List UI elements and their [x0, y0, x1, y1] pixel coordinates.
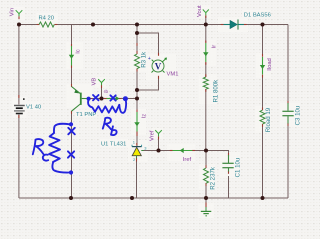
drawn resistor Rc zigzag [49, 133, 60, 162]
wire Vout pin stem [205, 16, 207, 25]
svg-text:Ir: Ir [212, 45, 218, 49]
wire load column mid [262, 75, 264, 110]
junction VB node [100, 97, 104, 101]
wire mid column between R3 and U1 [136, 71, 138, 147]
resistor R1 [203, 77, 208, 89]
svg-text:R2 237k: R2 237k [209, 166, 216, 190]
svg-text:Ic: Ic [76, 49, 82, 54]
X mark upper (Rc) [68, 128, 75, 135]
junction collector to ground rail [69, 196, 73, 200]
junction ground node [204, 196, 208, 200]
junction Vout node [204, 23, 208, 27]
wire right column upper [287, 25, 289, 102]
junction Vin node [17, 23, 21, 27]
svg-text:Iload: Iload [267, 58, 273, 71]
wire R2 column [205, 151, 207, 169]
svg-text:Vref: Vref [150, 130, 156, 141]
wire Vout column between R1 and junction [205, 89, 207, 151]
handwritten label Rc [33, 139, 44, 155]
svg-text:+: + [148, 56, 151, 62]
wire ground stem [205, 198, 207, 203]
wire U1 anode to rail [136, 157, 138, 198]
wire to drawn resistor Rc [54, 124, 70, 133]
red component pins [19, 15, 288, 207]
pin Vout [203, 10, 209, 16]
wire emitter below arrow [71, 66, 73, 87]
wire Vref stem [158, 137, 160, 151]
wire VM1 branch top [137, 33, 159, 56]
wire from Rc to bottom dot [52, 162, 69, 173]
teal component labels [26, 12, 302, 190]
wire VM1 branch bottom [137, 76, 159, 90]
node dot left (Rb) [87, 97, 91, 101]
wire top rail left of R4 [19, 24, 39, 26]
junction top rail at R3 branch [135, 23, 139, 27]
capacitor C3 [282, 103, 293, 124]
svg-text:D1 BAS56: D1 BAS56 [244, 12, 271, 18]
resistor Rload [260, 110, 265, 124]
pin Vref [155, 130, 162, 136]
svg-text:Vout: Vout [197, 5, 203, 17]
svg-text:R1 800k: R1 800k [212, 79, 219, 103]
junction top rail mid [91, 23, 95, 27]
svg-text:Ib: Ib [104, 89, 108, 94]
junction VM1 return [135, 88, 139, 92]
current arrow Ib (points right) [107, 98, 118, 100]
wire collector column [71, 111, 73, 198]
svg-text:VB: VB [92, 78, 98, 86]
junction VM1 branch [135, 31, 139, 35]
voltmeter VM1 [148, 56, 167, 73]
X mark right (Rb) [110, 95, 115, 100]
junction diode output node [261, 23, 265, 27]
node dot bottom (Rc) [69, 170, 73, 174]
wire mid column top [136, 25, 138, 52]
current arrow Ir [205, 43, 207, 62]
svg-text:R3 1k: R3 1k [141, 51, 148, 68]
wire load column bottom [262, 124, 264, 198]
wire top rail R4 to diode [55, 24, 230, 26]
svg-text:V1 40: V1 40 [26, 105, 41, 111]
svg-text:Iref: Iref [183, 157, 192, 163]
wire base [89, 98, 137, 100]
pin Vin [16, 10, 23, 16]
wire C1 branch [206, 151, 229, 156]
junction Vref node [157, 149, 161, 153]
wire VB pin stem [101, 85, 103, 99]
IC U1 TL431 [132, 140, 147, 162]
svg-text:V: V [155, 61, 162, 71]
wire C1 to rail [228, 176, 230, 198]
ground [201, 207, 212, 216]
wire load column top [262, 25, 264, 57]
wire right column lower [287, 126, 289, 199]
svg-text:Rload 19: Rload 19 [265, 107, 272, 132]
junction Rload to ground rail [261, 196, 265, 200]
drawn resistor Rb squiggle [88, 101, 119, 113]
current arrow Ic [71, 46, 73, 66]
junction U1 anode to ground rail [130, 196, 134, 200]
purple node / current labels [9, 5, 273, 163]
transistor Q T1 [72, 87, 90, 112]
diode D1 [224, 19, 244, 29]
svg-text:VM1: VM1 [167, 71, 179, 77]
svg-text:U1 TL431: U1 TL431 [101, 142, 126, 148]
svg-text:Iz: Iz [142, 114, 148, 119]
resistor R3 [135, 54, 140, 69]
junction base node [135, 97, 139, 101]
node dot right (Rb) [123, 96, 128, 101]
handwritten label Rb [103, 118, 111, 130]
junction R1-R2 node [204, 149, 208, 153]
X mark left (Rb) [93, 95, 99, 100]
svg-text:T1 PNP: T1 PNP [76, 112, 96, 118]
wire top rail diode to corner [238, 24, 288, 26]
annotation Rc group [33, 122, 75, 174]
node dot top (Rc) [69, 122, 73, 126]
wire emitter column [71, 25, 73, 46]
battery V1 [14, 98, 25, 113]
current arrow Iz [136, 112, 138, 132]
wire left column upper [18, 25, 20, 105]
wire Vout column upper [205, 25, 207, 43]
svg-text:C1 10u: C1 10u [234, 158, 241, 178]
current arrow Iload [262, 57, 264, 75]
wire U1 ref to R junction [142, 150, 207, 152]
X mark lower (Rc) [68, 151, 74, 157]
svg-text:Vin: Vin [9, 8, 15, 16]
resistor R2 [204, 168, 209, 183]
wire bottom rail [19, 197, 288, 199]
current arrow Iref (points left) [173, 150, 193, 152]
pin VB [98, 79, 105, 85]
capacitor C1 [222, 155, 233, 172]
resistor R4 [39, 22, 54, 27]
svg-text:R4 20: R4 20 [39, 16, 54, 22]
wire R2 to rail [205, 183, 207, 198]
svg-text:C3 10u: C3 10u [295, 106, 302, 126]
component white boxes [13, 5, 301, 218]
wire left column lower [18, 115, 20, 199]
annotation Rb group [87, 95, 128, 135]
wire Vout column between Ir and R1 [205, 63, 207, 78]
